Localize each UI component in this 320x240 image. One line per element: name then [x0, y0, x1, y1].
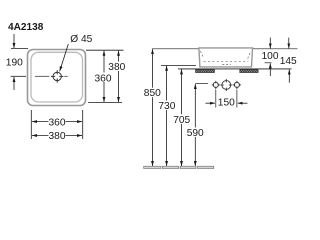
countertop line	[178, 68, 292, 70]
dim 100 bottom arrow	[269, 63, 271, 76]
label 360 vertical	[96, 73, 112, 83]
svg-text:Ø 45: Ø 45	[70, 34, 92, 45]
rim height ext line right	[252, 48, 297, 50]
tap ext line right	[236, 90, 238, 108]
label 850	[144, 88, 161, 98]
svg-text:145: 145	[280, 56, 297, 67]
plan view outer rim	[28, 50, 86, 106]
svg-text:360: 360	[49, 117, 66, 128]
dim 150 right arrow	[238, 102, 248, 104]
side view drain dashed	[222, 64, 231, 66]
tap ext line left	[215, 90, 217, 108]
label 590	[187, 127, 204, 137]
floor segment 4	[198, 166, 214, 168]
label 360 horizontal	[49, 117, 66, 127]
ext line below plan left	[30, 110, 32, 139]
rim height ext line left	[152, 48, 200, 50]
dim 360 vertical line	[103, 51, 105, 102]
counter section hatch left	[196, 70, 215, 73]
side view basin body	[199, 48, 253, 67]
svg-text:850: 850	[144, 88, 161, 99]
dim 380 horizontal line	[32, 135, 82, 137]
dim 145 top arrow	[288, 38, 290, 49]
tap hole right	[233, 81, 241, 89]
counter section hatch right	[240, 70, 258, 73]
tap hole left	[212, 81, 220, 89]
side view bowl interior dashed bottom	[204, 60, 249, 62]
label 705	[173, 114, 190, 124]
svg-text:100: 100	[262, 51, 279, 62]
dim 190 top arrow	[13, 34, 15, 48]
ext line 730 underside	[161, 64, 196, 66]
dim 730 line	[166, 66, 168, 166]
label 730	[159, 100, 176, 110]
side view bowl interior dashed left	[201, 51, 204, 58]
dim 150 left arrow	[206, 102, 216, 104]
ext line right of plan bottom	[88, 102, 122, 104]
svg-text:360: 360	[95, 73, 112, 84]
ext line top-left of plan	[11, 48, 28, 50]
dim 380 vertical line	[118, 51, 120, 102]
floor segment 1	[144, 166, 161, 168]
plan view inner bowl rim	[31, 52, 83, 102]
dim 145 bottom arrow	[288, 70, 290, 83]
drain hole Ø45	[51, 70, 63, 82]
leader line Ø45	[60, 44, 69, 71]
ext line right of plan top	[86, 49, 124, 51]
dim 190 bottom arrow	[13, 77, 15, 90]
floor segment 2	[162, 166, 178, 168]
svg-text:730: 730	[158, 101, 175, 112]
dim 360 horizontal line	[32, 121, 82, 123]
svg-text:190: 190	[6, 58, 23, 69]
tap hole center	[220, 79, 232, 91]
svg-text:4A2138: 4A2138	[8, 22, 44, 33]
ext line 590 taps	[195, 83, 208, 85]
side view bowl interior dashed right	[248, 52, 251, 59]
svg-text:380: 380	[49, 131, 66, 142]
svg-text:150: 150	[218, 98, 235, 109]
dim 705 line	[181, 69, 183, 166]
dim 590 line	[194, 84, 196, 166]
ext line below plan right	[82, 110, 84, 139]
floor segment 3	[180, 166, 196, 168]
label 380 vertical	[109, 62, 125, 72]
ext line 100 bottom	[265, 62, 272, 64]
drain centerline dashed	[11, 75, 26, 77]
svg-text:590: 590	[187, 128, 204, 139]
svg-text:380: 380	[108, 62, 125, 73]
label 380 horizontal	[49, 131, 66, 141]
dim 100 top arrow	[269, 38, 271, 49]
svg-text:705: 705	[173, 115, 190, 126]
dim 850 line	[152, 49, 154, 166]
